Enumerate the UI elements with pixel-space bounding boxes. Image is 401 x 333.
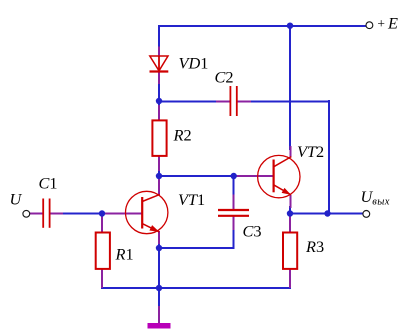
node C3 top junction: [231, 173, 237, 179]
resistor R2: [152, 120, 166, 155]
wire VT1 emitter down to bottom rail and ground: [158, 231, 160, 311]
svg-text:VT2: VT2: [297, 142, 324, 161]
lead R3 bottom: [289, 269, 291, 288]
capacitor C3: [218, 210, 249, 216]
wire bottom rail: [101, 287, 291, 289]
lead VT1 emitter: [158, 231, 160, 244]
capacitor C2: [230, 86, 236, 116]
node R2/VT1 collector junction: [156, 173, 162, 179]
wire emitter node to C3 bottom: [158, 247, 235, 249]
node VT1 emitter junction: [156, 245, 162, 251]
svg-text:Uвых: Uвых: [361, 187, 390, 208]
lead C2 right: [237, 101, 251, 103]
svg-text:R1: R1: [115, 245, 134, 264]
lead VT2 collector: [290, 146, 292, 157]
svg-text:VT1: VT1: [178, 190, 205, 209]
wire VT2 emitter to output node: [289, 206, 291, 214]
lead VD1 cathode: [158, 71, 160, 84]
wire vertical above VD1: [158, 25, 160, 57]
svg-text:+: +: [377, 16, 386, 31]
wire R1 bottom to rail: [101, 282, 103, 289]
lead VT2 emitter: [290, 195, 292, 208]
lead ground stem: [158, 306, 160, 323]
node bottom rail junction: [156, 285, 162, 291]
wire C2 right to feedback corner: [249, 101, 330, 103]
svg-text:C3: C3: [243, 222, 262, 241]
transistor VT2: [258, 155, 300, 197]
wire input node to R1: [101, 212, 103, 219]
lead VT1 base: [103, 213, 142, 215]
lead C1 right: [50, 213, 63, 215]
wire VT2 collector up to rail: [289, 25, 291, 150]
resistor R1: [96, 233, 110, 269]
svg-text:U: U: [10, 190, 23, 209]
svg-text:R3: R3: [305, 237, 324, 256]
resistor R3: [283, 233, 297, 269]
wire R2 node to C2 left: [158, 101, 218, 103]
wire top supply rail: [158, 25, 366, 27]
transistor VT1: [126, 191, 168, 233]
wire feedback vertical: [328, 100, 330, 214]
node top rail junction: [287, 23, 293, 29]
diode VD1: [150, 56, 169, 72]
wire output line: [290, 213, 363, 215]
terminal +E: [366, 22, 373, 29]
lead C3 top: [233, 195, 235, 210]
node R2/VD1/C2 junction: [156, 98, 162, 104]
capacitor C1: [43, 199, 49, 228]
lead R1 bottom: [101, 269, 103, 288]
node VT2 emitter junction: [287, 210, 293, 216]
terminal input: [23, 210, 30, 217]
lead C2 left: [216, 101, 230, 103]
svg-text:VD1: VD1: [179, 54, 209, 73]
lead R2 top: [158, 105, 160, 120]
lead VD1 anode: [158, 47, 160, 57]
lead R2 bottom: [158, 156, 160, 171]
lead C3 bottom: [233, 217, 235, 231]
svg-text:C2: C2: [215, 68, 234, 87]
node feedback/output junction: [324, 210, 330, 216]
wire R2 to VT1 collector: [158, 155, 160, 195]
svg-text:R2: R2: [173, 125, 192, 144]
wire VD1 to R2: [158, 70, 160, 120]
lead VT2 base: [236, 175, 273, 177]
wire C1 to input node: [62, 213, 107, 215]
lead R3 top: [289, 215, 291, 233]
ground: [148, 323, 171, 329]
node input/R1 junction: [99, 210, 105, 216]
wire collector VT1 to base VT2: [158, 175, 240, 177]
wire C3 bottom down: [233, 227, 235, 249]
lead R1 top: [101, 215, 103, 233]
lead C1 left: [30, 213, 44, 215]
svg-text:E: E: [387, 14, 398, 33]
terminal output: [363, 211, 370, 218]
wire node to C3 top: [233, 175, 235, 198]
svg-text:C1: C1: [39, 174, 58, 193]
lead VT1 collector: [158, 179, 160, 195]
